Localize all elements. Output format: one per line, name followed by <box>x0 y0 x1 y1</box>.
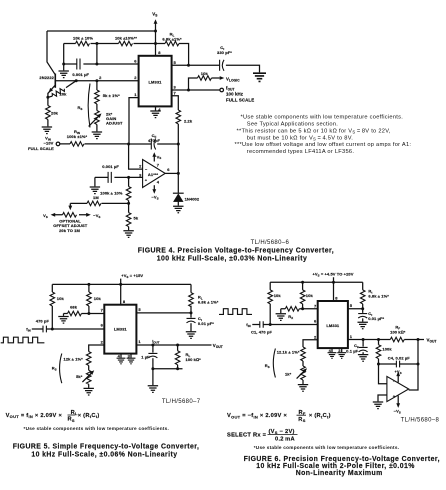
svg-text:10k ±10%**: 10k ±10%** <box>115 36 137 41</box>
svg-text:100 kHz Full-Scale, ±0.03% Non: 100 kHz Full-Scale, ±0.03% Non-Linearity <box>157 256 307 263</box>
svg-text:5k: 5k <box>134 215 139 220</box>
svg-text:20k TO 1M: 20k TO 1M <box>59 228 80 233</box>
svg-text:−10V: −10V <box>44 140 54 145</box>
svg-text:470pF: 470pF <box>148 138 161 143</box>
svg-text:12.1k ± 1%*: 12.1k ± 1%* <box>277 350 300 355</box>
svg-text:TL/H/5680–6: TL/H/5680–6 <box>251 240 290 246</box>
svg-text:0.001 µF: 0.001 µF <box>102 164 119 169</box>
svg-text:**This resistor can be 5 kΩ or: **This resistor can be 5 kΩ or 10 kΩ for… <box>237 129 391 135</box>
svg-text:100 kΩ*: 100 kΩ* <box>390 330 406 335</box>
svg-text:6.8k ± 1%*: 6.8k ± 1%* <box>368 293 389 298</box>
svg-text:10 kHz Full-Scale with 2-Pole: 10 kHz Full-Scale with 2-Pole Filter, ±0… <box>256 463 415 470</box>
svg-text:100 kΩ*: 100 kΩ* <box>186 357 202 362</box>
svg-text:10k: 10k <box>94 296 102 301</box>
svg-text:2.2k: 2.2k <box>184 118 193 123</box>
svg-text:1k*: 1k* <box>285 371 292 376</box>
svg-text:6.8k ±1%*: 6.8k ±1%* <box>162 37 182 42</box>
svg-text:VOUT = fIN × 2.09V ×: VOUT = fIN × 2.09V × <box>6 413 63 419</box>
svg-text:C4, 0.02 µF: C4, 0.02 µF <box>388 356 411 361</box>
svg-text:6.8k ± 1%*: 6.8k ± 1%* <box>198 299 219 304</box>
svg-text:× (RtCt): × (RtCt) <box>308 413 331 419</box>
svg-text:ADJUST: ADJUST <box>106 120 123 125</box>
svg-text:See Typical Applications secti: See Typical Applications section. <box>247 122 338 128</box>
svg-text:10k: 10k <box>274 293 282 298</box>
svg-text:20k: 20k <box>51 110 59 115</box>
svg-text:LM331: LM331 <box>114 327 128 332</box>
svg-text:*Use stable components with lo: *Use stable components with low temperat… <box>24 426 170 431</box>
svg-text:× (RtCt): × (RtCt) <box>76 413 99 419</box>
svg-text:RS: RS <box>68 417 75 423</box>
svg-text:but must be 10 kΩ for VS = 4.5: but must be 10 kΩ for VS = 4.5V to 8V. <box>247 135 353 141</box>
svg-text:0.001 µF: 0.001 µF <box>72 72 89 77</box>
svg-text:10k: 10k <box>306 293 314 298</box>
svg-text:*Use stable components with lo: *Use stable components with low temperat… <box>241 115 404 121</box>
svg-text:1M: 1M <box>93 195 99 200</box>
svg-text:2N2222: 2N2222 <box>39 75 54 80</box>
svg-text:100k ± 10%: 100k ± 10% <box>100 191 123 196</box>
svg-text:TL/H/5680–7: TL/H/5680–7 <box>162 399 201 405</box>
svg-text:RS: RS <box>298 417 305 423</box>
svg-text:330 pF*: 330 pF* <box>217 50 232 55</box>
svg-text:0.01 µF*: 0.01 µF* <box>198 321 214 326</box>
svg-text:10k ± 10%: 10k ± 10% <box>73 36 93 41</box>
svg-text:VOUT = −fIN × 2.09V ×: VOUT = −fIN × 2.09V × <box>227 413 287 419</box>
svg-text:FIGURE 4. Precision Voltage-to: FIGURE 4. Precision Voltage-to-Frequency… <box>138 248 334 255</box>
svg-text:0.01 µF*: 0.01 µF* <box>368 316 384 321</box>
svg-text:SELECT Rx =: SELECT Rx = <box>227 433 267 439</box>
svg-text:1N4002: 1N4002 <box>185 196 200 201</box>
svg-text:recommended types LF411A or LF: recommended types LF411A or LF356. <box>247 149 355 155</box>
svg-text:0.2 mA: 0.2 mA <box>275 437 295 443</box>
svg-text:C1, 470 pF: C1, 470 pF <box>251 329 272 334</box>
svg-text:0.1 µF: 0.1 µF <box>346 348 358 353</box>
svg-text:20k: 20k <box>60 92 68 97</box>
svg-text:A1***: A1*** <box>148 172 159 177</box>
svg-text:10k: 10k <box>201 71 209 76</box>
svg-text:TL/H/5680–8: TL/H/5680–8 <box>401 417 440 423</box>
svg-text:5k ± 1%*: 5k ± 1%* <box>103 93 120 98</box>
svg-text:100 kHz: 100 kHz <box>226 92 244 97</box>
svg-text:FIGURE 5. Simple Frequency-to-: FIGURE 5. Simple Frequency-to-Voltage Co… <box>13 444 200 451</box>
svg-text:LM331: LM331 <box>326 323 340 328</box>
svg-text:470 pF: 470 pF <box>36 318 50 323</box>
svg-text:FULL SCALE: FULL SCALE <box>28 146 54 151</box>
svg-text:***Use low offset voltage and: ***Use low offset voltage and low offset… <box>235 142 412 148</box>
svg-text:FIGURE 6. Precision Frequency-: FIGURE 6. Precision Frequency-to-Voltage… <box>244 456 440 463</box>
svg-text:*Use stable components with lo: *Use stable components with low temperat… <box>254 445 400 450</box>
svg-text:10k: 10k <box>57 296 65 301</box>
svg-text:100k ±1%*: 100k ±1%* <box>67 134 88 139</box>
svg-text:68k: 68k <box>70 304 78 309</box>
svg-text:Non-Linearity Maximum: Non-Linearity Maximum <box>296 470 383 477</box>
svg-text:FULL SCALE: FULL SCALE <box>226 98 254 103</box>
svg-text:10 kHz Full-Scale, ±0.06% Non-: 10 kHz Full-Scale, ±0.06% Non-Linearity <box>31 451 177 458</box>
svg-text:5k*: 5k* <box>76 374 83 379</box>
svg-text:100k: 100k <box>382 347 392 352</box>
svg-text:12k ± 1%*: 12k ± 1%* <box>64 357 84 362</box>
svg-text:LM331: LM331 <box>149 79 163 84</box>
svg-text:1 µF: 1 µF <box>141 355 150 360</box>
